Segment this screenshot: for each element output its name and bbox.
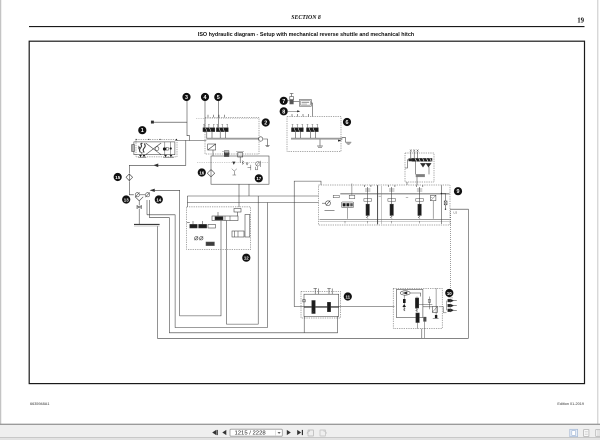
spool section S2	[388, 185, 396, 218]
svg-text:4: 4	[204, 95, 207, 101]
wire loop B	[150, 200, 305, 333]
main control valve block 9	[319, 185, 458, 225]
page left edge	[0, 0, 2, 424]
balloon 4	[201, 93, 209, 101]
hatched block	[423, 317, 426, 322]
page bottom edge	[0, 423, 600, 425]
balloon 16	[198, 168, 206, 176]
balloon 14	[155, 195, 163, 203]
tank reservoir bar	[134, 224, 160, 226]
right divider	[435, 288, 437, 317]
balloon 10	[445, 289, 453, 297]
svg-text:17: 17	[256, 176, 261, 181]
balloon 11	[344, 292, 352, 300]
toolbar strip	[0, 425, 600, 438]
internal drops	[220, 221, 222, 250]
check arrows	[233, 162, 235, 164]
svg-text:1: 1	[141, 128, 144, 134]
reservoir label box EA	[299, 100, 312, 117]
balloon 1	[138, 126, 146, 134]
LS pilot dotted line	[450, 211, 452, 288]
wire tank return long loop	[158, 209, 469, 338]
valve block 9 top feed stub	[351, 184, 353, 196]
priority spool cluster	[341, 195, 354, 219]
pump	[400, 291, 410, 295]
drain tees	[232, 169, 237, 172]
solenoid valve block 6	[287, 114, 341, 152]
sensor	[256, 162, 260, 166]
next page button	[287, 430, 291, 435]
continuous layout icon	[584, 430, 589, 437]
wire filter to valves 13/14	[129, 181, 134, 195]
pilot box	[333, 195, 339, 197]
solenoid valve block 2	[196, 115, 259, 156]
balloon 8	[280, 107, 288, 115]
wire pump return loop to filter 15	[129, 140, 186, 173]
right end rail	[441, 185, 447, 224]
header rule	[29, 26, 585, 28]
section divider bar	[377, 185, 379, 224]
wire loop A	[147, 203, 267, 328]
balloon 6	[343, 118, 351, 126]
page right edge	[597, 0, 599, 424]
balloon 9	[454, 187, 462, 195]
rear remote valve unit 10	[393, 288, 457, 338]
next view icon (disabled)	[320, 430, 327, 436]
pump circle	[155, 147, 159, 151]
mid small element	[428, 299, 430, 302]
mid coupler valve 11	[301, 289, 341, 333]
suction strainer	[132, 145, 135, 152]
svg-text:ISO hydraulic diagram - Setup: ISO hydraulic diagram - Setup with mecha…	[198, 32, 414, 38]
small restrictors	[195, 237, 198, 240]
gerotor elements	[140, 144, 142, 153]
relief valve 16MPa	[222, 150, 229, 152]
pump crossover lines	[146, 143, 162, 155]
left valve cluster	[190, 224, 197, 228]
pilot dotted line	[196, 118, 259, 120]
wire 14 to inner loop D	[150, 189, 221, 316]
balloon 15	[114, 173, 122, 181]
port ticks	[207, 115, 209, 118]
svg-text:3: 3	[185, 95, 188, 101]
svg-text:13: 13	[124, 197, 129, 202]
numbered callout balloons	[114, 93, 463, 301]
svg-text:19: 19	[577, 18, 584, 25]
svg-text:12: 12	[244, 256, 249, 261]
wire node 4 drop	[204, 101, 206, 128]
svg-text:11: 11	[345, 294, 350, 299]
gallery double line	[291, 137, 341, 139]
relief setting box	[224, 151, 229, 154]
right section	[164, 142, 166, 155]
svg-text:SECTION 8: SECTION 8	[291, 15, 321, 21]
manifold block 16/17	[197, 151, 269, 184]
solenoid valve V6a	[292, 128, 304, 132]
bottom drops to tank line	[421, 329, 423, 339]
svg-text:1215 / 2228: 1215 / 2228	[235, 431, 267, 437]
wire into unit 12 top-left	[186, 196, 188, 207]
svg-text:5: 5	[217, 95, 220, 101]
solenoid valve V6b	[307, 128, 319, 132]
shutoff valve below 13	[137, 206, 141, 225]
spring	[242, 161, 243, 165]
two page layout icon (clipped)	[596, 430, 600, 437]
svg-text:6: 6	[346, 120, 349, 126]
svg-text:10: 10	[447, 291, 452, 296]
drain tee	[319, 139, 321, 145]
svg-text:LS: LS	[454, 211, 458, 215]
wire distribution line upper	[187, 195, 318, 197]
wire feed to trailer valve 11	[294, 181, 321, 307]
wire pilot stub from node 3	[151, 101, 189, 141]
svg-text:15: 15	[115, 175, 120, 180]
steering unit bar	[212, 216, 238, 221]
tank drains below	[139, 155, 142, 157]
svg-text:14: 14	[156, 197, 161, 202]
spool section S1	[364, 185, 372, 218]
diagram frame	[29, 41, 584, 383]
balloon 17	[255, 174, 263, 182]
pressure reducing valve	[208, 144, 216, 150]
breather 7	[286, 94, 299, 105]
internal rails	[340, 192, 449, 194]
couplers	[439, 298, 457, 313]
previous view icon (disabled)	[307, 430, 314, 436]
top port dots	[136, 139, 137, 140]
solenoid valve V2b	[216, 128, 228, 132]
inlet relief valve	[326, 201, 331, 206]
wire node 5 drop	[217, 101, 219, 128]
wire leader from node 8	[288, 110, 300, 112]
right relief valve	[232, 231, 244, 237]
priority steering block 12	[187, 207, 251, 250]
hitch raise valve assembly above block 9	[405, 150, 434, 186]
tank symbol below valves	[135, 197, 143, 206]
balloon 2	[262, 118, 270, 126]
spool lower	[416, 313, 419, 323]
svg-text:2: 2	[264, 121, 267, 127]
wire manifold to unit 12 drops	[238, 184, 240, 207]
page number field	[230, 429, 282, 436]
gallery double line	[206, 137, 259, 139]
svg-text:9: 9	[457, 189, 460, 195]
svg-text:6635948A1: 6635948A1	[30, 402, 49, 406]
restrictor valve 13	[135, 192, 140, 197]
restrictor valve 14	[140, 192, 150, 197]
balloon 3	[182, 93, 190, 101]
lower frame	[303, 316, 305, 332]
first page button	[212, 430, 216, 435]
port ticks	[291, 114, 293, 117]
wire block 6 outlet to tank	[338, 138, 351, 145]
single page layout icon (active)	[570, 429, 578, 436]
wire supply line 11 to 10	[294, 306, 394, 308]
filter 16	[207, 170, 214, 177]
balloon 12	[242, 254, 250, 262]
gauge port M1	[258, 137, 269, 147]
wire loop E	[227, 196, 259, 324]
svg-text:8: 8	[282, 109, 285, 115]
svg-text:Edition 01-2019: Edition 01-2019	[557, 402, 584, 406]
svg-text:7: 7	[282, 99, 285, 105]
end section valves	[431, 195, 436, 219]
wire distribution line lower	[187, 202, 318, 204]
svg-text:16: 16	[199, 170, 204, 175]
spool section S3	[416, 185, 424, 218]
balloon 7	[280, 97, 288, 105]
lower valve	[206, 242, 214, 246]
outlet port D	[444, 201, 447, 205]
balloon 13	[122, 195, 130, 203]
spool mid	[415, 297, 418, 313]
balloon 5	[214, 93, 222, 101]
wire pump outlet to valve 2	[175, 139, 206, 141]
filter 15	[126, 174, 133, 181]
aux valve	[432, 306, 437, 312]
last page button	[297, 430, 301, 435]
solenoid valve V2a	[203, 128, 215, 132]
pump unit 1	[132, 139, 177, 158]
MRV label	[325, 210, 335, 212]
spool left	[402, 295, 406, 311]
